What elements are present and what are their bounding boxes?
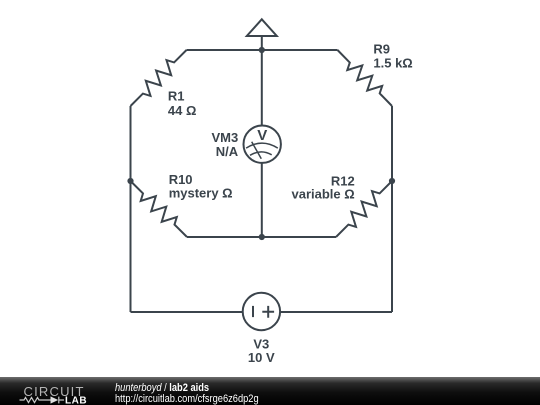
- wire voltmeter bottom: [261, 163, 263, 237]
- svg-text:1.5 kΩ: 1.5 kΩ: [373, 55, 412, 70]
- svg-text:variable Ω: variable Ω: [292, 186, 355, 201]
- svg-text:10 V: 10 V: [248, 350, 275, 365]
- svg-text:R9: R9: [373, 42, 390, 57]
- resistor R10: [131, 181, 188, 237]
- voltmeter needle: [252, 142, 262, 159]
- svg-text:VM3: VM3: [211, 130, 238, 145]
- resistor R12: [336, 181, 392, 237]
- wire left vertical: [130, 106, 132, 312]
- CircuitLab logo wordmark: [0, 377, 110, 405]
- wire bottom bridge rail: [187, 236, 336, 238]
- footer url line: [115, 394, 259, 405]
- logo resistor-diode symbol: [20, 397, 65, 404]
- wire right vertical: [391, 106, 393, 312]
- resistor R9: [338, 50, 393, 106]
- op-amp: voltmeter VM3 body: [244, 126, 281, 163]
- antenna symbol top: [247, 19, 277, 36]
- V3 plus sign: [262, 306, 274, 318]
- svg-text:N/A: N/A: [216, 144, 239, 159]
- node junction right: [389, 178, 395, 184]
- svg-text:R1: R1: [168, 89, 185, 104]
- voltmeter scale arc inner: [250, 152, 272, 155]
- voltage source V3 body: [243, 293, 280, 330]
- footer credit line: [115, 383, 209, 394]
- wire bottom rail right: [280, 311, 392, 313]
- svg-text:LAB: LAB: [65, 395, 87, 405]
- svg-text:V: V: [257, 127, 267, 144]
- resistor R1: [131, 50, 187, 106]
- node junction bottom: [259, 234, 265, 240]
- wire bottom rail left: [131, 311, 243, 313]
- footer bar: [0, 377, 540, 405]
- svg-text:44 Ω: 44 Ω: [168, 103, 197, 118]
- svg-text:mystery Ω: mystery Ω: [169, 186, 233, 201]
- V3 minus bar: [252, 306, 254, 317]
- voltmeter scale arc outer: [246, 143, 278, 148]
- wire antenna stem: [261, 36, 263, 50]
- wire voltmeter top: [261, 50, 263, 126]
- node junction top: [259, 47, 265, 53]
- node junction left: [127, 178, 133, 184]
- wire top rail: [187, 49, 338, 51]
